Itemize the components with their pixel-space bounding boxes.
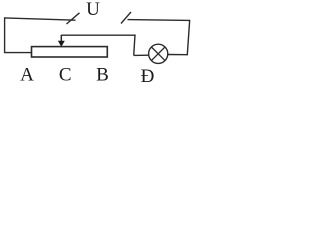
- svg-text:U: U: [86, 0, 100, 20]
- switch blade right (supply terminal): [121, 12, 131, 24]
- wire left vertical: [4, 17, 6, 52]
- svg-text:Đ: Đ: [141, 66, 155, 87]
- wire middle vertical (wiper to lamp): [134, 35, 135, 56]
- wire middle horizontal (wiper to lamp): [61, 34, 135, 36]
- wire lamp left: [134, 54, 150, 56]
- wire bottom-left to rheostat A: [4, 52, 32, 54]
- switch blade left (supply terminal): [67, 13, 80, 24]
- wire top-left horizontal: [5, 18, 76, 20]
- wire lamp right: [168, 54, 188, 56]
- wire top-right horizontal: [128, 19, 190, 22]
- lamp Đ (circle with X): [149, 44, 168, 63]
- rheostat body (resistor track): [32, 47, 108, 57]
- svg-text:C: C: [59, 64, 72, 85]
- wiper arrow C: [60, 35, 62, 42]
- svg-text:B: B: [96, 65, 109, 86]
- svg-text:A: A: [20, 65, 34, 86]
- wire right vertical: [187, 20, 189, 55]
